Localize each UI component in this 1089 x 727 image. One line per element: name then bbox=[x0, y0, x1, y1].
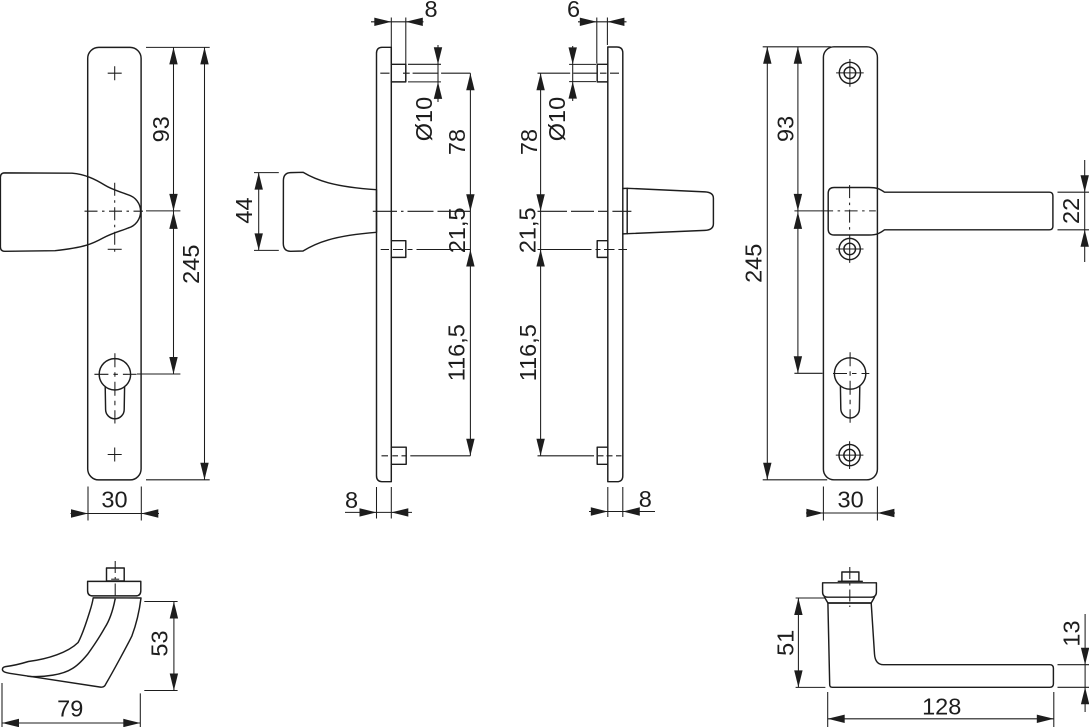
svg-text:128: 128 bbox=[922, 694, 961, 720]
svg-text:13: 13 bbox=[1059, 620, 1085, 646]
svg-text:53: 53 bbox=[147, 630, 173, 656]
svg-text:6: 6 bbox=[567, 0, 580, 22]
svg-text:30: 30 bbox=[101, 486, 127, 512]
svg-text:116,5: 116,5 bbox=[515, 324, 541, 381]
svg-text:93: 93 bbox=[772, 116, 798, 142]
svg-text:79: 79 bbox=[57, 696, 83, 722]
svg-text:44: 44 bbox=[231, 197, 257, 223]
svg-text:22: 22 bbox=[1058, 198, 1084, 224]
svg-text:245: 245 bbox=[741, 244, 767, 283]
svg-text:21,5: 21,5 bbox=[444, 207, 470, 253]
svg-text:Ø10: Ø10 bbox=[544, 97, 570, 141]
svg-text:116,5: 116,5 bbox=[443, 324, 469, 381]
svg-text:8: 8 bbox=[345, 487, 358, 513]
svg-text:78: 78 bbox=[516, 129, 542, 155]
svg-text:30: 30 bbox=[838, 487, 864, 513]
svg-text:21,5: 21,5 bbox=[515, 207, 541, 253]
svg-text:Ø10: Ø10 bbox=[411, 97, 437, 141]
svg-text:93: 93 bbox=[148, 116, 174, 142]
svg-text:8: 8 bbox=[639, 486, 652, 512]
svg-text:245: 245 bbox=[178, 245, 204, 284]
svg-text:78: 78 bbox=[444, 129, 470, 155]
svg-text:8: 8 bbox=[424, 0, 437, 22]
svg-text:51: 51 bbox=[772, 630, 798, 656]
